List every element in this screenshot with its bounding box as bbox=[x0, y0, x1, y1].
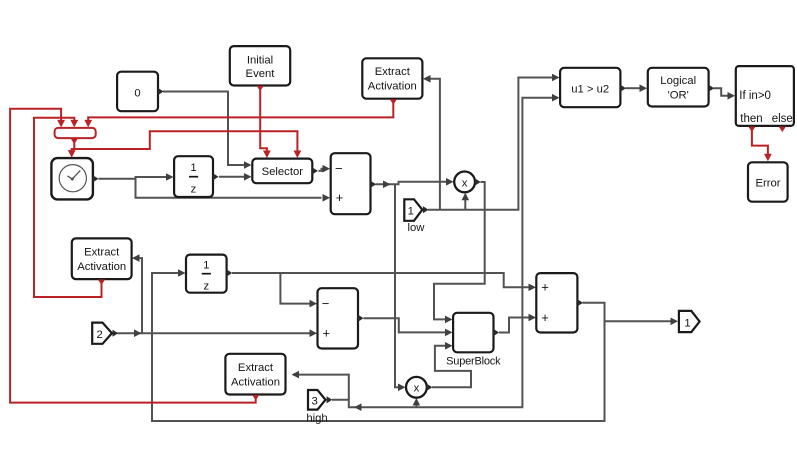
red arrowhead into Selector top (right) bbox=[294, 151, 302, 159]
wire sum1 output to multiplier 1 bbox=[376, 182, 447, 185]
arrowhead into sum1 minus input bbox=[323, 165, 331, 173]
svg-text:1: 1 bbox=[190, 162, 196, 174]
wire sum3 branch to output port 1 bbox=[605, 320, 672, 322]
red arrowhead into Error top bbox=[764, 154, 772, 162]
block constant 0 bbox=[117, 72, 164, 112]
arrowhead into multiplier 2 left input bbox=[398, 384, 406, 392]
red event wire Extract Activation 2 loop to event union middle input bbox=[34, 118, 102, 297]
red arrowhead into event union top right bbox=[84, 120, 92, 128]
arrowhead into Extract Activation 2 input (left pointing) bbox=[132, 254, 140, 262]
arrowhead into sum3 plus input 1 bbox=[529, 284, 537, 292]
svg-text:else: else bbox=[772, 113, 793, 125]
block Extract Activation 1 bbox=[362, 58, 422, 104]
red arrowhead into Selector top (left) bbox=[263, 151, 271, 159]
arrowhead into Selector input 2 bbox=[244, 173, 252, 181]
arrowhead into Extract Activation 1 input (left pointing) bbox=[423, 75, 431, 83]
svg-text:x: x bbox=[462, 177, 468, 189]
svg-text:SuperBlock: SuperBlock bbox=[446, 356, 501, 368]
arrowhead into SuperBlock input 3 bbox=[445, 342, 453, 350]
arrowhead into Extract Activation 3 input (left pointing) bbox=[292, 371, 300, 379]
svg-text:+: + bbox=[323, 326, 331, 341]
multiplier 2 bbox=[406, 377, 432, 398]
arrowhead into u1>u2 input 2 bbox=[552, 94, 560, 102]
block sum2 minus plus bbox=[318, 288, 364, 348]
wire high branch up to multiplier 2 bottom input bbox=[415, 405, 417, 408]
BLOCKS bbox=[51, 46, 793, 424]
svg-text:Activation: Activation bbox=[368, 81, 417, 93]
svg-text:Selector: Selector bbox=[262, 166, 304, 178]
red arrowhead into clock top bbox=[68, 150, 76, 158]
svg-text:then: then bbox=[740, 113, 762, 125]
svg-text:Extract: Extract bbox=[84, 246, 120, 258]
svg-text:'OR': 'OR' bbox=[668, 90, 689, 102]
event union bar bbox=[55, 128, 96, 144]
block Extract Activation 3 bbox=[225, 354, 285, 401]
arrowhead into u1>u2 input 1 bbox=[552, 74, 560, 82]
svg-text:u1 > u2: u1 > u2 bbox=[571, 84, 609, 96]
block Logical OR bbox=[648, 68, 714, 107]
arrowhead into multiplier 1 bottom input (up pointing) bbox=[462, 193, 470, 201]
block If in>0 bbox=[736, 66, 794, 132]
mid-wire arrow on high wire (left pointing) bbox=[354, 403, 362, 411]
arrowhead into SuperBlock input 1 bbox=[445, 316, 453, 324]
arrowhead into 1/z 2 input bbox=[178, 269, 186, 277]
arrowhead into sum3 plus input 2 bbox=[529, 314, 537, 322]
mid-wire arrow on sum1 output bbox=[383, 181, 391, 189]
svg-text:−: − bbox=[335, 161, 343, 176]
svg-text:Activation: Activation bbox=[231, 376, 280, 388]
arrowhead into sum1 plus input bbox=[323, 194, 331, 202]
arrowhead into SuperBlock input 2 bbox=[445, 329, 453, 337]
arrowhead into output port 1 bbox=[671, 318, 679, 326]
input port 3 high bbox=[306, 390, 332, 424]
svg-text:high: high bbox=[306, 412, 327, 424]
svg-text:−: − bbox=[322, 296, 330, 311]
svg-text:+: + bbox=[541, 280, 549, 295]
input port 2 bbox=[92, 323, 118, 344]
wire 1/z 2 branch to sum3 plus input 1 bbox=[280, 273, 529, 287]
svg-text:Error: Error bbox=[755, 178, 780, 190]
red arrowhead into event union top middle bbox=[70, 120, 78, 128]
red event wire Initial Event to Selector bbox=[260, 90, 267, 151]
svg-text:1: 1 bbox=[408, 206, 414, 218]
wire multiplier 2 output to SuperBlock input 3 bbox=[432, 346, 471, 388]
red event wire Extract Activation 1 loop to event union right input bbox=[88, 103, 393, 122]
block clock bbox=[51, 158, 98, 199]
arrowhead into Selector input 1 bbox=[244, 161, 252, 169]
wire multiplier 1 output to SuperBlock input 1 bbox=[434, 182, 485, 319]
wire sum1 branch down to multiplier 2 left input bbox=[395, 184, 399, 387]
block Selector bbox=[252, 159, 318, 184]
wire 1/z 2 to sum2 minus input bbox=[232, 273, 311, 304]
wire input 2 to sum2 plus input bbox=[118, 332, 311, 334]
arrowhead into multiplier 1 left input bbox=[446, 178, 454, 186]
svg-text:Extract: Extract bbox=[375, 66, 411, 78]
svg-text:Initial: Initial bbox=[247, 54, 273, 66]
block 1/z unit delay 1 bbox=[174, 156, 219, 197]
wire 1/z 1 to Selector input 2 bbox=[219, 176, 245, 178]
block 1/z unit delay 2 bbox=[186, 255, 232, 293]
block SuperBlock bbox=[446, 313, 501, 368]
svg-text:3: 3 bbox=[311, 395, 317, 407]
svg-text:x: x bbox=[414, 383, 420, 395]
wire branch up to Extract Activation 2 input bbox=[139, 258, 142, 333]
svg-text:2: 2 bbox=[97, 329, 103, 341]
mid-wire arrow on input 2 wire bbox=[134, 329, 142, 337]
svg-text:Event: Event bbox=[246, 68, 276, 80]
block Extract Activation 2 bbox=[72, 238, 132, 285]
svg-text:1: 1 bbox=[684, 317, 690, 329]
svg-text:Activation: Activation bbox=[77, 261, 126, 273]
block Error bbox=[748, 162, 788, 201]
wire sum2 output to SuperBlock input 2 bbox=[364, 318, 446, 332]
wire SuperBlock output to sum3 plus input 2 bbox=[499, 318, 530, 333]
arrowhead into multiplier 2 bottom input (up pointing) bbox=[413, 398, 421, 406]
arrowhead into Logical OR input bbox=[640, 84, 648, 92]
wire low branch to Extract Activation 1 input bbox=[430, 79, 440, 210]
wire u1>u2 to Logical OR bbox=[626, 87, 641, 89]
red event wire union output to clock bbox=[72, 142, 75, 152]
block Initial Event bbox=[230, 46, 290, 91]
svg-text:1: 1 bbox=[203, 259, 209, 271]
svg-text:z: z bbox=[203, 281, 209, 293]
svg-text:Extract: Extract bbox=[238, 362, 274, 374]
wire clock to 1/z unit delay 1 bbox=[99, 177, 168, 179]
red event wire If then to Error bbox=[752, 130, 768, 156]
output port 1 bbox=[679, 311, 700, 332]
multiplier 1 bbox=[454, 172, 480, 193]
wire Logical OR to If block bbox=[714, 88, 729, 96]
wire high branch to Extract Activation 3 input bbox=[293, 375, 349, 400]
red arrowhead into event union top left bbox=[57, 120, 65, 128]
input port 1 low bbox=[404, 199, 428, 234]
wire input high to u1>u2 input 2 bbox=[332, 98, 553, 408]
arrowhead into sum2 minus input bbox=[310, 300, 318, 308]
wire sum3 output feedback loop to 1/z 2 input bbox=[152, 273, 605, 421]
wire Selector to sum1 minus input bbox=[319, 169, 324, 171]
svg-text:+: + bbox=[336, 190, 344, 205]
svg-text:If in>0: If in>0 bbox=[739, 90, 771, 102]
block u1 > u2 bbox=[560, 68, 626, 107]
red event wire Extract Activation 3 loop to event union left input bbox=[10, 109, 256, 403]
arrowhead into sum2 plus input bbox=[310, 329, 318, 337]
svg-text:0: 0 bbox=[134, 87, 140, 99]
block sum3 plus plus bbox=[536, 273, 583, 332]
red event wire union output branch to Selector bbox=[74, 131, 297, 151]
arrowhead into If block input bbox=[728, 92, 736, 100]
wire constant 0 to Selector input 1 bbox=[163, 92, 245, 166]
svg-text:Logical: Logical bbox=[660, 75, 696, 87]
svg-text:z: z bbox=[191, 184, 197, 196]
arrowhead into 1/z 1 input bbox=[166, 173, 174, 181]
wire low branch up to multiplier 1 bottom input bbox=[464, 200, 466, 210]
svg-text:+: + bbox=[541, 310, 549, 325]
svg-text:low: low bbox=[408, 222, 426, 234]
block sum1 minus plus bbox=[331, 153, 376, 214]
wire input low to u1>u2 input 1 bbox=[428, 78, 553, 210]
wire clock branch to sum1 plus input bbox=[136, 179, 322, 198]
